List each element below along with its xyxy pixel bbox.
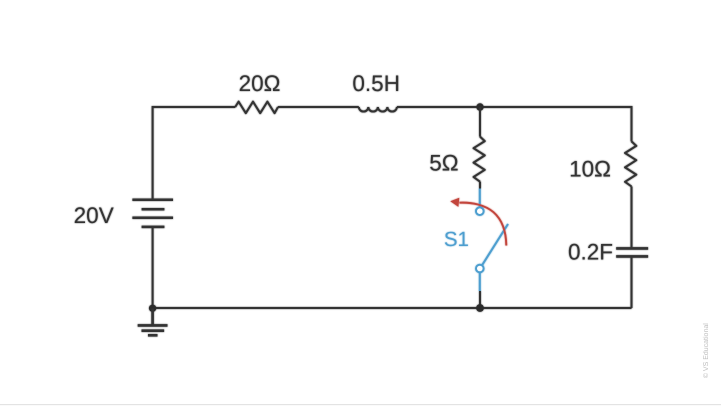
wire right: capacitor to bottom corner [631,256,633,308]
inductor L 0.5H [359,107,397,112]
wire: switch upper lead (blue) [479,189,481,208]
wire top: left corner to 20Ω resistor [153,106,236,108]
wire right: top corner down to 10Ω [631,106,633,141]
wire bottom [153,307,632,309]
red arrowhead [450,198,459,207]
ground symbol [138,308,168,335]
svg-text:20Ω: 20Ω [239,71,281,96]
resistor R 20Ω zigzag [235,102,278,114]
wire: 5Ω resistor to switch (black lead) [479,182,481,189]
switch S1 lower pivot circle [476,265,484,273]
wire: switch lower lead (blue) [479,272,481,291]
svg-text:10Ω: 10Ω [569,157,611,182]
node A top junction [476,103,483,110]
node junction bottom middle [476,304,484,312]
switch S1 upper contact circle [476,207,484,215]
svg-text:20V: 20V [74,203,114,228]
node junction bottom-left [149,305,156,312]
red closing-motion arc [460,203,507,246]
wire middle branch: node A to 5Ω resistor [479,107,481,137]
battery V1 plates [132,200,173,227]
wire top: inductor to right corner [397,106,632,108]
resistor R 10Ω vertical zigzag [625,141,636,186]
switch S1 blade [480,224,508,269]
capacitor C 0.2F plates [616,248,648,256]
resistor R 5Ω vertical zigzag [474,137,485,182]
svg-text:© VS Educational: © VS Educational [702,323,710,378]
svg-text:S1: S1 [444,228,469,251]
wire left: top corner down to battery [152,106,154,199]
svg-text:0.5H: 0.5H [352,71,400,96]
wire left: battery to bottom node [152,228,154,309]
wire: switch to bottom node (black lead) [479,291,481,308]
wire right: 10Ω to capacitor [631,187,633,249]
svg-text:5Ω: 5Ω [429,151,458,176]
faint bottom page edge [0,404,721,405]
wire top: resistor to inductor [278,106,359,108]
svg-text:0.2F: 0.2F [568,240,613,265]
